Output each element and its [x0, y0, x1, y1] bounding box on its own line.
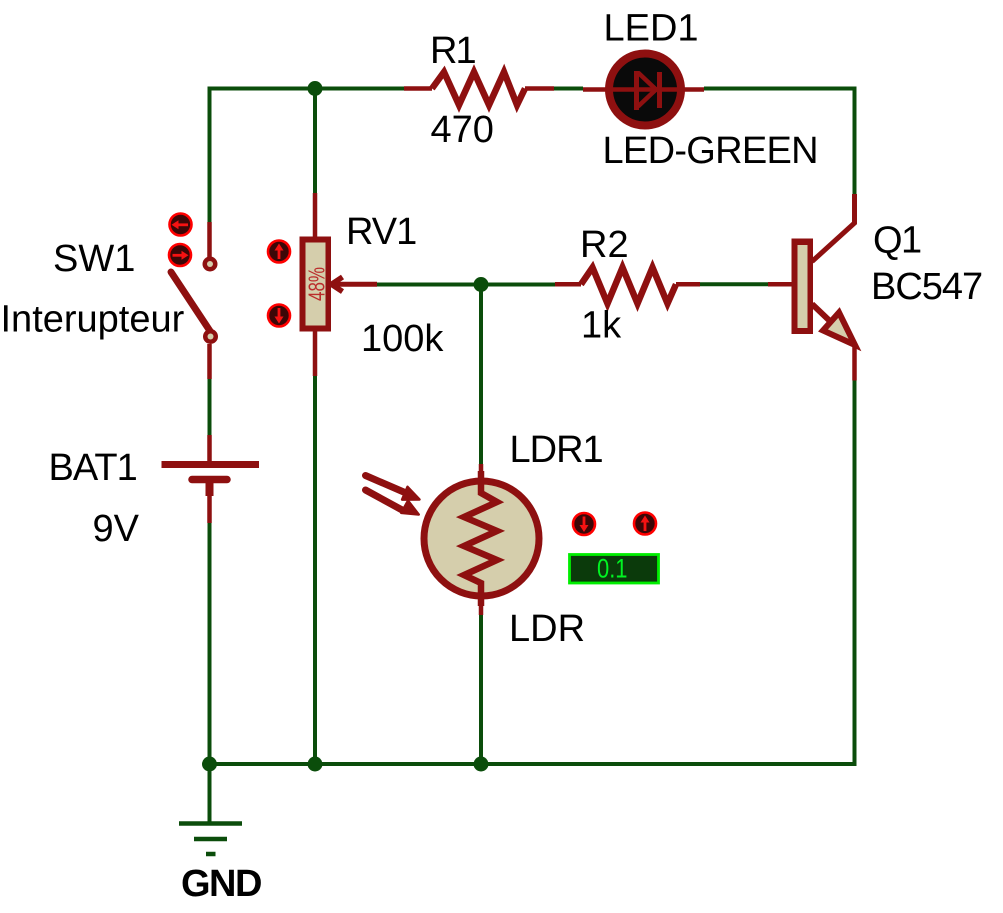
- svg-text:BC547: BC547: [871, 266, 982, 308]
- transistor Q1: [792, 239, 856, 346]
- svg-text:1k: 1k: [581, 305, 622, 347]
- battery BAT1: [162, 465, 260, 480]
- wire R2 left pin red: [555, 282, 581, 287]
- wire left column bottom green: [208, 523, 212, 764]
- LDR1 light arrow 1: [366, 476, 420, 500]
- wire ground stub green: [208, 764, 212, 822]
- wire R1 right pin red: [525, 86, 554, 91]
- wire Q1 collector pin red: [812, 194, 855, 262]
- wire LDR1 top pin red: [479, 464, 484, 483]
- svg-text:Interupteur: Interupteur: [1, 299, 185, 341]
- svg-text:R1: R1: [430, 30, 475, 72]
- svg-text:48%: 48%: [304, 267, 330, 301]
- wire Q1 emitter pin red: [852, 345, 857, 381]
- svg-text:RV1: RV1: [346, 211, 416, 253]
- svg-text:LDR1: LDR1: [510, 429, 603, 471]
- wire SW1 top pin red: [207, 222, 212, 257]
- wire wiper to junction green: [377, 283, 555, 287]
- wire R2 to base green: [700, 282, 768, 286]
- wire red line through LED1: [583, 87, 704, 92]
- node bottom rail at battery column: [202, 757, 217, 772]
- wire R1 left pin red: [404, 86, 432, 91]
- ground: [179, 824, 242, 855]
- svg-text:BAT1: BAT1: [49, 447, 137, 489]
- wire top rail right green: [704, 89, 855, 195]
- wire RV1 column bottom green: [313, 376, 317, 764]
- node bottom rail at RV1 column: [308, 757, 323, 772]
- wire BAT1 bottom pin red: [206, 483, 214, 496]
- svg-text:LED-GREEN: LED-GREEN: [603, 130, 818, 172]
- LDR1 light arrow 2: [366, 490, 419, 515]
- LED1 diode symbol: [637, 71, 660, 110]
- svg-text:LED1: LED1: [604, 8, 699, 50]
- node junction top rail: [308, 81, 323, 96]
- wire left column top green: [208, 87, 212, 223]
- svg-text:0.1: 0.1: [597, 554, 628, 584]
- svg-text:SW1: SW1: [53, 238, 135, 280]
- wire RV1 bottom pin red: [313, 331, 318, 376]
- switch SW1: [171, 257, 218, 345]
- LDR1 down icon: [573, 513, 595, 535]
- wire right column green down: [853, 381, 857, 767]
- node bottom rail at LDR column: [474, 757, 489, 772]
- wire BAT1 top pin red: [207, 435, 212, 461]
- wire Q1 base pin red: [768, 282, 792, 287]
- wire top rail left green segment: [208, 87, 405, 91]
- LDR1 up icon: [634, 513, 656, 535]
- svg-text:LDR: LDR: [509, 608, 585, 650]
- wire bottom rail green: [210, 762, 857, 766]
- svg-text:470: 470: [431, 109, 494, 151]
- wire SW1 bottom pin red: [207, 344, 212, 379]
- node wiper junction: [474, 277, 489, 292]
- wire LDR column bottom green: [479, 615, 483, 764]
- RV1 up icon: [268, 241, 290, 263]
- LDR1 body: [424, 481, 539, 596]
- wire green segment before LED: [554, 87, 583, 91]
- svg-text:9V: 9V: [93, 508, 140, 550]
- wire green between switch and battery: [208, 379, 212, 435]
- potentiometer RV1: [300, 237, 332, 332]
- svg-text:R2: R2: [580, 224, 629, 266]
- LED LED1 body: [609, 54, 681, 126]
- LDR1 value display box: [570, 554, 659, 584]
- svg-text:100k: 100k: [361, 318, 444, 360]
- wire LDR1 bottom pin red: [479, 594, 484, 615]
- svg-text:GND: GND: [181, 863, 261, 905]
- SW1 toggle icon left: [170, 214, 192, 236]
- wire LDR column top green: [479, 285, 483, 465]
- svg-text:Q1: Q1: [873, 220, 921, 262]
- SW1 toggle icon right: [169, 244, 191, 266]
- RV1 wiper arrow: [331, 277, 377, 292]
- wire RV1 column top green: [313, 89, 317, 194]
- resistor R1: [432, 72, 525, 105]
- wire R2 right pin red: [676, 282, 700, 287]
- wire RV1 top pin red: [313, 193, 318, 238]
- resistor R2: [581, 268, 676, 304]
- RV1 down icon: [268, 305, 290, 327]
- LDR1 internal resistor zigzag: [464, 471, 497, 606]
